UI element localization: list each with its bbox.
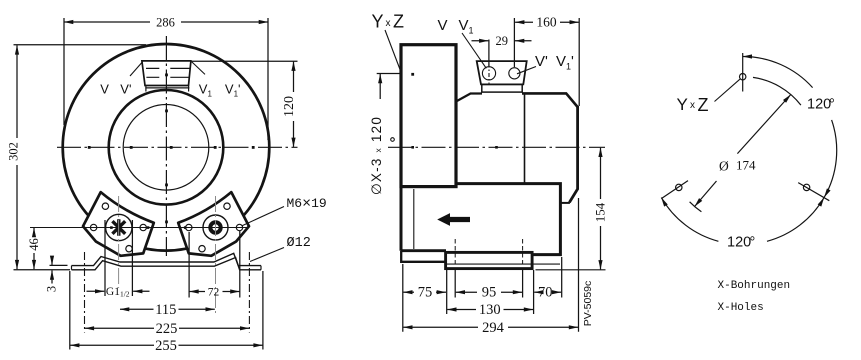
dim 154 bottom extension bbox=[536, 269, 606, 271]
bolt circle arc top-right bbox=[753, 77, 801, 105]
dim 130 lines bbox=[447, 309, 476, 311]
dim 160 lines bbox=[515, 21, 533, 23]
svg-text:Z: Z bbox=[698, 95, 709, 115]
left foot vertical centerline bbox=[118, 196, 120, 288]
svg-text:V: V bbox=[100, 82, 109, 97]
svg-text:Y: Y bbox=[677, 95, 688, 114]
foot left (white fill covers circle) bbox=[83, 192, 154, 256]
svg-text:Z: Z bbox=[393, 12, 404, 32]
dim 225 lines bbox=[85, 327, 154, 329]
YxZ hole dot bbox=[411, 73, 414, 76]
plate end hole centerlines bbox=[84, 252, 86, 333]
svg-text:V1': V1' bbox=[225, 82, 241, 99]
port circle right bbox=[509, 68, 520, 79]
svg-text:302: 302 bbox=[7, 142, 21, 161]
svg-text:PV-5059c: PV-5059c bbox=[582, 281, 594, 327]
dim 286 lines bbox=[64, 21, 150, 23]
angle arc right 120deg bbox=[743, 56, 813, 87]
housing outer circle bbox=[63, 44, 270, 251]
svg-text:70: 70 bbox=[538, 285, 553, 301]
svg-text:x: x bbox=[386, 18, 391, 29]
motor right edge bbox=[569, 106, 577, 202]
housing/motor boundary bbox=[524, 94, 526, 184]
center dots side bbox=[495, 146, 498, 149]
port hidden thread dashes bbox=[146, 68, 190, 77]
base plate profile bottom bbox=[72, 258, 262, 270]
svg-text:120: 120 bbox=[727, 235, 751, 251]
top port trapezoid bbox=[142, 61, 191, 86]
port thread circle left bbox=[482, 67, 495, 80]
svg-text:225: 225 bbox=[156, 321, 178, 337]
svg-text:294: 294 bbox=[482, 320, 505, 336]
svg-text:V: V bbox=[438, 17, 448, 34]
dim 302 line bbox=[16, 45, 18, 138]
svg-text:160: 160 bbox=[536, 14, 557, 29]
svg-text:x: x bbox=[690, 100, 695, 111]
left foot G-thread circle bbox=[106, 214, 132, 240]
radial tick bottom-left bbox=[661, 181, 688, 199]
base foot hidden edges bbox=[455, 239, 522, 266]
angle arc bottom 120deg bbox=[661, 198, 718, 242]
port circle left centerline bbox=[488, 64, 490, 85]
svg-text:75: 75 bbox=[418, 285, 433, 301]
centerline square dots bbox=[88, 74, 255, 229]
dim 294 right extension bbox=[578, 198, 580, 332]
svg-text:154: 154 bbox=[592, 202, 607, 222]
motor bottom edge bbox=[561, 202, 570, 204]
port flange lower line bbox=[145, 87, 189, 89]
dim 3 extension bbox=[50, 264, 68, 266]
svg-text:286: 286 bbox=[156, 16, 175, 30]
leader YxZ right bbox=[715, 79, 740, 101]
side port neck bbox=[482, 84, 522, 92]
dim 3 arrows bbox=[51, 257, 53, 265]
svg-text:95: 95 bbox=[482, 285, 497, 301]
dim 29 arrows bbox=[472, 40, 489, 42]
right foot bolt circles bbox=[203, 215, 228, 240]
svg-text:255: 255 bbox=[155, 338, 177, 354]
horizontal centerline bbox=[57, 146, 298, 148]
svg-text:174: 174 bbox=[736, 158, 756, 173]
dim 95 lines bbox=[456, 291, 477, 293]
bolt circle arc bottom-left bbox=[690, 202, 702, 212]
dim OX-3 arrow bbox=[379, 74, 381, 99]
svg-text:Ø: Ø bbox=[719, 159, 729, 174]
dim 72 lines bbox=[189, 291, 205, 293]
radial tick right bbox=[798, 183, 829, 201]
dim 255 lines bbox=[70, 344, 154, 346]
body top edge left bbox=[456, 94, 482, 102]
dim 130 extensions bbox=[447, 270, 534, 314]
muffler box outline bbox=[401, 184, 560, 255]
leader V1 bbox=[191, 61, 205, 74]
dim 46 line bbox=[33, 228, 35, 236]
flow arrow bbox=[437, 213, 470, 226]
dim 286 extension lines bbox=[64, 18, 268, 140]
leaders for V labels bbox=[130, 61, 205, 76]
muffler bottom edge left bbox=[401, 249, 446, 252]
dim 294 lines bbox=[403, 326, 478, 328]
G1 1/2 extension lines bbox=[105, 220, 132, 296]
port neck stubs bbox=[146, 86, 189, 92]
leader V' bbox=[130, 63, 142, 77]
fan cover rectangle bbox=[401, 45, 456, 187]
svg-text:°: ° bbox=[750, 235, 756, 251]
dim 255 extension lines bbox=[70, 271, 263, 350]
svg-text:29: 29 bbox=[496, 34, 509, 48]
right foot vertical centerline bbox=[215, 196, 217, 314]
dim 29 extensions bbox=[489, 18, 515, 67]
base plate end caps bbox=[72, 266, 262, 270]
base plate profile top bbox=[72, 253, 262, 265]
svg-text:Y: Y bbox=[372, 12, 384, 32]
hole right bbox=[803, 184, 809, 190]
svg-text:130: 130 bbox=[479, 302, 501, 318]
svg-text:72: 72 bbox=[208, 286, 220, 298]
dim 154 lines bbox=[600, 148, 602, 199]
svg-text:120: 120 bbox=[282, 96, 297, 117]
muffler left flange bbox=[401, 251, 446, 262]
right foot small holes bbox=[224, 203, 230, 209]
svg-text:V': V' bbox=[120, 82, 131, 97]
OX-3 extension bbox=[377, 73, 401, 75]
svg-text:X-Holes: X-Holes bbox=[718, 302, 764, 314]
radial tick top bbox=[742, 53, 744, 92]
left foot X (plug) symbol bbox=[112, 219, 125, 235]
dim 72 extension lines bbox=[189, 231, 240, 298]
bottom dims extension lines bbox=[403, 257, 562, 332]
dim 115 lines bbox=[120, 308, 154, 310]
leader V' side bbox=[517, 67, 536, 74]
svg-text:V1': V1' bbox=[556, 53, 574, 72]
body top edge right + chamfer bbox=[522, 93, 578, 107]
svg-text:115: 115 bbox=[155, 302, 176, 318]
housing inner circle bbox=[123, 105, 209, 191]
base foot inner line bbox=[447, 263, 560, 265]
foot right (white fill covers circle) bbox=[178, 192, 249, 256]
svg-text:°: ° bbox=[829, 97, 835, 113]
dia 174 dimension line bbox=[737, 95, 790, 154]
dim 70 lines bbox=[534, 291, 540, 293]
leader M6x19 bbox=[242, 207, 285, 227]
dim 120 extension bbox=[192, 60, 298, 62]
svg-text:∅X-3 x 120: ∅X-3 x 120 bbox=[369, 116, 384, 195]
base foot box bbox=[446, 252, 532, 268]
dim 75 lines bbox=[403, 291, 414, 293]
degree circle of OX-3 bbox=[391, 138, 395, 142]
leader O12 bbox=[250, 248, 284, 262]
vertical centerline bbox=[165, 36, 167, 256]
svg-text:M6×19: M6×19 bbox=[287, 195, 327, 212]
hole bottom-left bbox=[676, 184, 682, 190]
leader V1 side bbox=[462, 33, 486, 68]
left foot small holes bbox=[102, 203, 108, 209]
muffler inner wall bbox=[413, 189, 415, 249]
dim G1 1/2 arrows bbox=[87, 290, 105, 292]
leader YxZ bbox=[385, 30, 401, 72]
side horizontal centerline bbox=[388, 146, 605, 148]
feet axis line bbox=[30, 227, 248, 229]
svg-text:X-Bohrungen: X-Bohrungen bbox=[718, 280, 791, 292]
svg-text:Ø12: Ø12 bbox=[287, 236, 311, 251]
side port trapezoid bbox=[477, 61, 527, 84]
dim 120 line bbox=[293, 62, 295, 92]
dim 302 extension lines bbox=[14, 45, 147, 270]
svg-text:3: 3 bbox=[45, 286, 59, 292]
svg-text:46: 46 bbox=[27, 238, 41, 251]
svg-text:120: 120 bbox=[807, 97, 831, 113]
housing middle circle bbox=[109, 90, 224, 205]
svg-text:V': V' bbox=[535, 53, 548, 70]
dim 160 extension bbox=[578, 18, 580, 106]
hole top bbox=[740, 74, 746, 80]
